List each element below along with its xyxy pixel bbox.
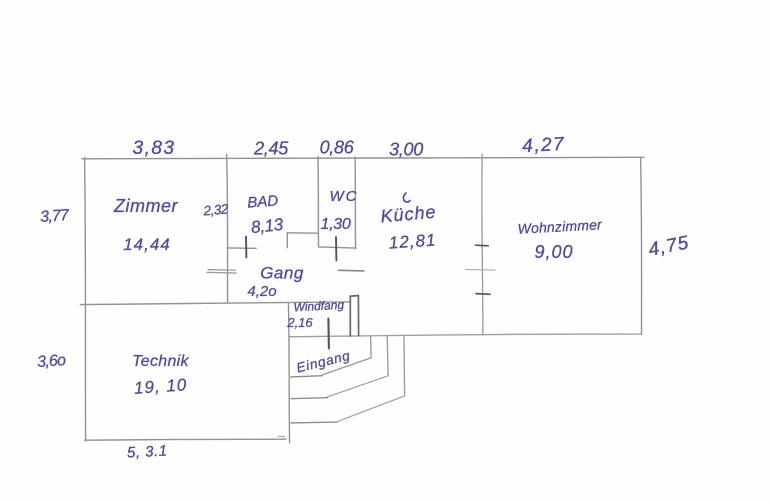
door jamb tick Wohnzimmer lower bbox=[476, 293, 490, 296]
svg-text:Küche: Küche bbox=[380, 202, 438, 227]
svg-text:1,30: 1,30 bbox=[321, 216, 351, 233]
svg-text:4,27: 4,27 bbox=[522, 134, 566, 157]
door tick Zimmer upper bbox=[208, 269, 236, 272]
svg-text:2,16: 2,16 bbox=[286, 315, 313, 330]
svg-text:8,13: 8,13 bbox=[250, 215, 285, 237]
svg-text:3,00: 3,00 bbox=[389, 140, 423, 160]
chimney block bbox=[350, 296, 358, 336]
door tick Zimmer lower bbox=[207, 271, 236, 274]
stair step3 vertical bbox=[403, 336, 406, 396]
wall WC bottom bbox=[318, 247, 356, 248]
svg-text:3,77: 3,77 bbox=[40, 207, 71, 226]
stair step2 vertical bbox=[386, 336, 389, 376]
door leaf line Wohnzimmer middle bbox=[466, 268, 495, 271]
svg-text:Wohnzimmer: Wohnzimmer bbox=[517, 216, 603, 236]
svg-text:5, 3.1: 5, 3.1 bbox=[127, 442, 168, 461]
stair step2 diagonal bbox=[327, 376, 388, 397]
wall left exterior bbox=[85, 157, 86, 441]
stair step1 tread line bbox=[291, 376, 323, 377]
svg-text:Eingang: Eingang bbox=[295, 348, 352, 376]
stair step1 vertical bbox=[370, 336, 373, 358]
svg-text:WC: WC bbox=[330, 188, 359, 205]
stair step2 tread line bbox=[291, 398, 327, 399]
svg-text:BAD: BAD bbox=[247, 192, 279, 211]
svg-text:12,81: 12,81 bbox=[388, 230, 437, 252]
stair step3 tread line bbox=[291, 421, 337, 424]
wall south y335 bbox=[290, 334, 641, 337]
stair step1 diagonal bbox=[322, 358, 371, 375]
wall BAD step horizontal bbox=[287, 232, 318, 234]
svg-text:19, 10: 19, 10 bbox=[133, 375, 187, 398]
wall BAD bottom bbox=[227, 247, 256, 249]
svg-text:Gang: Gang bbox=[260, 264, 304, 283]
door jamb tick Windfang bbox=[327, 319, 330, 349]
wall middle vertical x289 bbox=[288, 303, 289, 443]
door jamb tick BAD bbox=[245, 237, 247, 258]
svg-text:4,75: 4,75 bbox=[647, 232, 691, 260]
wall bottom Technik bbox=[85, 439, 286, 440]
wall top exterior bbox=[82, 157, 644, 159]
svg-text:Zimmer: Zimmer bbox=[113, 196, 178, 216]
wall right exterior x641 bbox=[641, 157, 642, 334]
svg-text:9,00: 9,00 bbox=[534, 242, 573, 262]
svg-text:2,45: 2,45 bbox=[253, 139, 289, 159]
svg-text:2,32: 2,32 bbox=[202, 201, 229, 218]
svg-text:4,2o: 4,2o bbox=[247, 283, 276, 300]
wall Zimmer right x227 bbox=[227, 155, 228, 303]
door jamb tick Wohnzimmer upper bbox=[476, 244, 489, 247]
svg-text:0,86: 0,86 bbox=[320, 138, 355, 158]
wall Kueche/Wohnzimmer x482 bbox=[482, 154, 483, 334]
stray pencil mark left of wall bbox=[279, 435, 285, 437]
svg-text:14,44: 14,44 bbox=[123, 235, 171, 254]
svg-text:3,6o: 3,6o bbox=[37, 352, 67, 371]
stair step3 diagonal bbox=[337, 396, 405, 422]
svg-text:Technik: Technik bbox=[132, 353, 189, 370]
svg-text:Windfang: Windfang bbox=[293, 298, 345, 315]
accent stroke over Kueche u bbox=[403, 193, 410, 202]
wall BAD step vertical bbox=[286, 233, 288, 248]
wall BAD/WC x318 bbox=[317, 156, 320, 246]
svg-text:3,83: 3,83 bbox=[133, 138, 176, 159]
door opening line Gang/Kueche bbox=[339, 269, 365, 272]
door jamb tick WC bbox=[335, 237, 337, 260]
wall divider Zimmer/Technik y303 bbox=[80, 302, 350, 305]
wall WC right x355 bbox=[354, 157, 357, 249]
